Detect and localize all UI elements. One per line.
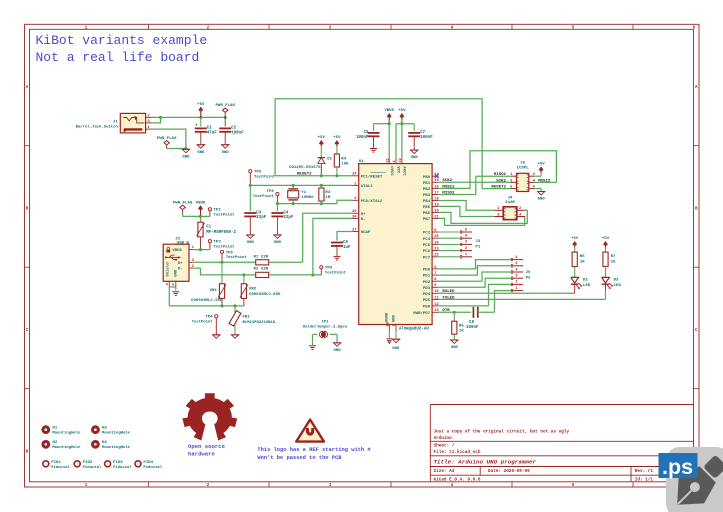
svg-text:22pF: 22pF [283,216,293,220]
svg-text:PB0: PB0 [423,176,431,180]
svg-text:A: A [26,86,29,90]
wire UGND [388,331,390,339]
J5 pin numbers [510,173,536,189]
junction C2 top [224,116,227,119]
svg-text:D-: D- [361,218,366,222]
svg-text:PD5: PD5 [423,299,431,303]
power PWR_FLAG near J1 [157,137,177,149]
svg-text:JP1: JP1 [321,321,329,325]
svg-text:LED: LED [614,284,622,288]
svg-text:Open source: Open source [188,443,226,450]
ground R5 [450,340,459,350]
capacitor C5 [331,232,352,256]
svg-text:C4: C4 [283,211,288,215]
wire XTAL1 rail [250,184,337,186]
svg-text:6: 6 [434,266,436,270]
svg-text:C5: C5 [343,241,348,245]
wire SCK2 [439,181,511,183]
wire RESET2 loop [275,99,482,189]
TP4 labels [192,316,214,325]
title block frame [430,405,693,483]
J2 pin stubs [189,250,193,269]
sheet comment text [36,33,208,65]
wire PD6 to J6 pin2 [439,284,511,306]
testpoint TP9 [320,266,323,275]
TP6 labels [254,171,275,180]
FB1 labels [243,316,276,325]
resistor R5 [452,312,457,339]
svg-text:PB7: PB7 [423,218,431,222]
svg-text:10K: 10K [341,162,349,166]
mounting hole H2 [41,440,81,450]
svg-text:PC5: PC5 [423,244,431,248]
svg-text:C8: C8 [469,321,474,325]
wire J1 pin1 to GND [152,129,186,148]
U1 value label [399,327,429,331]
svg-text:9: 9 [434,284,436,288]
svg-text:J6: J6 [526,271,531,275]
svg-text:VR1: VR1 [210,289,218,293]
connector J2 USB_B [163,244,189,281]
label TXLED [442,296,455,300]
fuse F1 [197,216,205,249]
svg-text:ICSPL: ICSPL [517,167,530,171]
svg-text:VR2: VR2 [249,288,257,292]
svg-text:27: 27 [352,228,356,232]
svg-text:R3: R3 [325,191,330,195]
capacitor C4 [271,204,283,235]
svg-text:C: C [26,329,29,333]
ground C2 [221,145,230,155]
logo open source hardware gear [182,393,237,441]
jumper JP1 [313,331,338,337]
svg-text:Won't be passed to the PCB: Won't be passed to the PCB [257,455,342,461]
ground C6 [370,149,377,153]
svg-text:Sheet: /: Sheet: / [434,444,455,449]
svg-text:+: + [195,123,198,128]
svg-text:TestPoint: TestPoint [226,255,247,260]
label RESET2 left [297,173,312,177]
svg-text:TestPoint: TestPoint [253,194,274,199]
TP3 labels [214,241,235,250]
power PWR_FLAG at C2 [215,104,235,117]
connector J4 2x2M [494,207,525,220]
F1 labels [206,226,236,235]
mounting hole H1 [41,425,81,435]
svg-text:File: t1.kicad_sch: File: t1.kicad_sch [434,450,481,455]
svg-text:C6: C6 [364,131,369,135]
svg-text:6: 6 [693,26,696,30]
svg-text:1K: 1K [611,261,616,265]
C3 labels [256,211,266,220]
ground UGND [387,339,393,344]
svg-text:29: 29 [352,210,356,214]
fiducial FID4 [135,461,163,470]
ps file icon [659,447,723,512]
wire D+ from J2 [193,261,256,263]
svg-text:U1: U1 [359,160,364,164]
label MOSI2 mcu [442,185,455,189]
wire XTAL1 to MCU [337,184,352,186]
ferrite bead FB1 [229,306,241,335]
connector J1 Barrel_Jack_Switch [120,113,145,132]
svg-text:SCK2: SCK2 [496,179,506,183]
J2 pin numbers [192,246,195,269]
junction D- riser [311,273,314,276]
svg-text:2: 2 [354,197,356,201]
svg-text:MOSI2: MOSI2 [538,179,551,183]
wire PB7 to J4 pin4 [439,217,525,226]
junction F1 bottom [199,248,202,251]
junction VBUS [388,122,391,125]
testpoint TP8 [276,192,279,203]
D1 label [327,158,332,162]
C2 labels [231,127,244,136]
svg-text:PWR_FLAG: PWR_FLAG [157,137,177,141]
wire PWR_FLAG to GND [167,148,186,150]
svg-text:PB1: PB1 [423,182,431,186]
capacitor C1 [195,117,207,143]
junction Y1 top [292,184,295,187]
wire JP1 left [312,334,314,345]
junction +5V [400,122,403,125]
wire JP1 right [336,334,338,342]
junction F1 top [199,215,202,218]
svg-text:J1: J1 [113,121,118,125]
wire RESET2 j5 [482,188,511,190]
svg-text:B: B [26,208,29,212]
svg-text:Fiducial: Fiducial [113,465,132,470]
svg-text:This logo has a REF starting w: This logo has a REF starting with # [257,447,371,453]
svg-text:GND: GND [197,151,205,155]
C8 labels [466,321,479,330]
wire esd gnd rail [169,305,244,307]
junction R2/VR2 [242,273,245,276]
D2 labels [583,279,591,288]
wire TXLED [439,298,606,300]
label MISO2 mcu [442,191,455,195]
wire PB6 to J4 pin2 [439,210,528,223]
svg-text:RXLED: RXLED [442,290,455,294]
svg-text:FID4: FID4 [143,461,153,465]
U1 top pins [386,157,405,176]
svg-text:PD0: PD0 [423,269,431,273]
svg-text:UVCC: UVCC [389,166,393,176]
C4 labels [283,211,293,220]
varistor VR1 [218,262,226,306]
svg-text:C1: C1 [207,127,212,131]
svg-text:2: 2 [519,207,521,211]
svg-text:100nF: 100nF [356,136,369,140]
svg-text:6: 6 [515,256,517,260]
svg-text:A: A [695,86,698,90]
junction TP5/VR1 [220,261,223,264]
svg-text:Shield: Shield [166,262,171,277]
warning text [257,447,371,461]
Y1 labels [301,191,314,200]
svg-text:26: 26 [434,241,438,245]
svg-text:PC1/RESET: PC1/RESET [361,174,383,179]
R3 labels [325,191,330,200]
wire VBUS rail [183,213,210,217]
R7 labels [611,255,616,264]
svg-text:1uF: 1uF [343,246,351,250]
svg-text:J3: J3 [475,240,480,244]
crystal Y1 [288,185,299,203]
U1 ref label [359,160,364,164]
ic U1 ATmega8U2 body [359,164,432,325]
U1 right pins [413,173,439,316]
svg-text:KiBot variants example: KiBot variants example [36,33,208,48]
svg-text:PB3: PB3 [423,194,431,198]
ground C1 [197,145,206,155]
J4 labels [505,197,515,206]
TP8 labels [253,190,275,199]
svg-text:C7: C7 [420,131,425,135]
testpoint TP3 [208,240,211,250]
svg-text:MountingHole: MountingHole [102,445,131,450]
R4 labels [341,157,349,166]
svg-text:PB6: PB6 [423,212,431,216]
svg-text:TestPoint: TestPoint [325,271,346,276]
svg-text:P1: P1 [475,245,480,249]
U1 RESET overbar [371,172,386,174]
wire J1 pin2 to C2 [152,116,226,118]
label RXLED [442,290,455,294]
label DTR [442,309,450,313]
ground TP4 [212,335,221,339]
svg-text:D+: D+ [361,213,366,217]
svg-text:4: 4 [451,484,454,488]
svg-text:R7: R7 [611,255,616,259]
wire PB4 to J4 pin1 [439,201,495,211]
svg-text:H3: H3 [102,427,107,431]
J1 pin numbers [148,114,151,130]
svg-text:17: 17 [434,191,438,195]
ground FB1 [231,335,240,339]
logo warning triangle [296,420,324,442]
R6 labels [580,255,585,264]
svg-text:2x2M: 2x2M [505,201,515,205]
TP5 labels [226,251,247,260]
J5 labels [517,161,530,170]
svg-text:TestPoint: TestPoint [192,320,213,325]
svg-text:PWR_FLAG: PWR_FLAG [173,201,193,205]
label SCK2 mcu [442,179,452,183]
svg-text:BLM21PG221SN1D: BLM21PG221SN1D [243,321,276,325]
J1 labels [76,121,119,130]
J2 labels [175,238,189,246]
svg-text:DTR: DTR [442,309,450,313]
wire VBUS top [374,120,390,158]
svg-text:FID2: FID2 [83,461,93,465]
resistor R7 [602,237,610,277]
ground J1 [182,149,191,159]
svg-text:PD4: PD4 [423,293,431,297]
svg-text:TestPoint: TestPoint [214,245,235,250]
svg-text:MF-MSMF050-2: MF-MSMF050-2 [206,231,236,235]
J6 labels [526,271,531,280]
svg-text:TP6: TP6 [254,171,262,175]
junction D1 [320,174,323,177]
svg-text:2: 2 [515,281,517,285]
svg-text:H4: H4 [102,441,107,445]
TP2 labels [214,209,235,218]
svg-text:TestPoint: TestPoint [214,213,235,218]
svg-text:Title: Arduino UNO programmer: Title: Arduino UNO programmer [434,458,537,465]
svg-text:2: 2 [465,247,467,251]
title block text [434,429,654,482]
power VBUS arrow [196,201,206,216]
svg-text:J4: J4 [508,197,513,201]
svg-text:MOSI2: MOSI2 [442,185,455,189]
diode D1 [318,136,326,176]
wire MOSI2 stub j5 [534,181,537,183]
svg-text:MountingHole: MountingHole [52,430,81,435]
svg-text:TXLED: TXLED [442,296,455,300]
svg-text:GND: GND [222,151,230,155]
svg-text:R5: R5 [459,324,464,328]
svg-text:TP3: TP3 [214,241,222,245]
svg-text:PC0/XTAL2: PC0/XTAL2 [361,199,383,204]
connector J6 P2 [511,256,523,292]
label CD1206 [289,166,321,170]
VR2 label [249,288,281,298]
wire MOSI2 [439,151,557,189]
svg-text:D2: D2 [583,279,588,283]
svg-text:Arduino: Arduino [434,436,453,441]
svg-text:7: 7 [434,272,436,276]
svg-text:D+: D+ [178,262,183,266]
junction R3 top [320,184,323,187]
led D3 [602,277,613,299]
svg-text:16: 16 [434,185,438,189]
svg-text:R1 22R: R1 22R [254,256,269,260]
svg-text:J5: J5 [520,161,525,165]
wire J2 VBUS [193,249,210,251]
svg-text:100nF: 100nF [466,326,479,330]
power +5V J5 [534,163,545,177]
svg-text:47uF: 47uF [207,132,217,136]
svg-text:PD6: PD6 [423,306,431,310]
svg-text:R6: R6 [580,255,585,259]
svg-text:TestPoint: TestPoint [254,175,275,180]
svg-text:PC2: PC2 [423,232,431,236]
svg-text:R4: R4 [341,157,346,161]
fiducial FID3 [105,461,133,470]
resistor R3 [319,185,324,203]
wire D+ to MCU [303,213,353,262]
svg-text:12: 12 [434,303,438,307]
svg-text:VBUS: VBUS [196,201,206,205]
svg-text:5: 5 [572,484,575,488]
R2 label [254,268,269,272]
capacitor C8 [473,307,494,318]
wire C8 to J6 pin1 [495,291,512,313]
wire D- from J2 [193,268,256,275]
testpoint TP5 [220,250,223,262]
VR1 label [210,289,218,293]
svg-text:UCAP: UCAP [361,231,371,235]
svg-text:GND: GND [392,347,400,351]
wire D- to MCU [313,218,352,275]
led D2 [571,277,582,293]
fiducial FID2 [74,461,102,470]
svg-text:PC4: PC4 [423,238,431,242]
svg-text:30: 30 [352,215,356,219]
svg-text:SCK2: SCK2 [442,179,452,183]
svg-text:+5V: +5V [318,136,326,140]
resistor R6 [571,237,579,277]
svg-text:+5V: +5V [398,109,406,113]
ground J5 [537,192,546,202]
ground U1 GND [392,339,401,351]
svg-text:R2 22R: R2 22R [254,268,269,272]
capacitor C6 [368,124,380,148]
wire GND pin [395,331,397,339]
svg-text:Fiducial: Fiducial [143,465,162,470]
svg-text:UGND: UGND [386,312,390,322]
svg-text:Size: A4: Size: A4 [434,469,455,474]
svg-text:20: 20 [434,209,438,213]
wire DTR [439,311,472,313]
VR1 value label [191,299,223,303]
testpoint TP4 [215,315,218,335]
svg-text:+5V: +5V [571,237,579,241]
svg-text:C: C [695,329,698,333]
svg-text:2: 2 [207,484,210,488]
JP1 labels [303,321,348,330]
junction VR1 gnd [220,304,223,307]
svg-text:GND: GND [334,349,342,353]
svg-text:TP4: TP4 [205,316,213,320]
svg-text:16MHz: 16MHz [301,196,314,200]
junction J1 gnd [184,147,187,150]
svg-text:D1: D1 [327,158,332,162]
svg-text:Id: 1/1: Id: 1/1 [635,478,654,483]
svg-text:PB4: PB4 [423,200,431,204]
wire PD0 to J6 pin6 [439,260,511,269]
junction Y1 bottom [292,202,295,205]
wire RESET to MCU [275,175,352,177]
ground JP1 left [309,346,316,350]
svg-text:VBUS: VBUS [384,109,394,113]
svg-text:D: D [26,451,29,455]
svg-text:PC6: PC6 [423,250,431,254]
svg-text:1K: 1K [580,261,585,265]
mounting hole H3 [91,425,131,435]
wire J1 pin3 jog [152,117,161,123]
svg-text:H1: H1 [52,427,57,431]
svg-text:22pF: 22pF [256,216,266,220]
svg-text:Barrel_Jack_Switch: Barrel_Jack_Switch [76,125,119,130]
svg-text:PB2: PB2 [423,188,431,192]
wire MISO2 [439,176,511,194]
svg-text:PWR_FLAG: PWR_FLAG [215,104,235,108]
ground C5 [334,256,341,260]
svg-text:XTAL1: XTAL1 [361,185,374,189]
svg-text:TP8: TP8 [267,190,275,194]
J3 labels [475,240,480,249]
svg-text:+5V: +5V [602,237,610,241]
svg-text:4: 4 [393,160,397,163]
junction J1 pins [159,116,162,119]
label MOSI2 j5 [538,179,551,183]
power PWR_FLAG VBUS [173,201,193,216]
wire J5 pin6 gnd [534,189,541,192]
svg-text:Y1: Y1 [301,191,306,195]
svg-text:AVCC: AVCC [402,166,406,176]
